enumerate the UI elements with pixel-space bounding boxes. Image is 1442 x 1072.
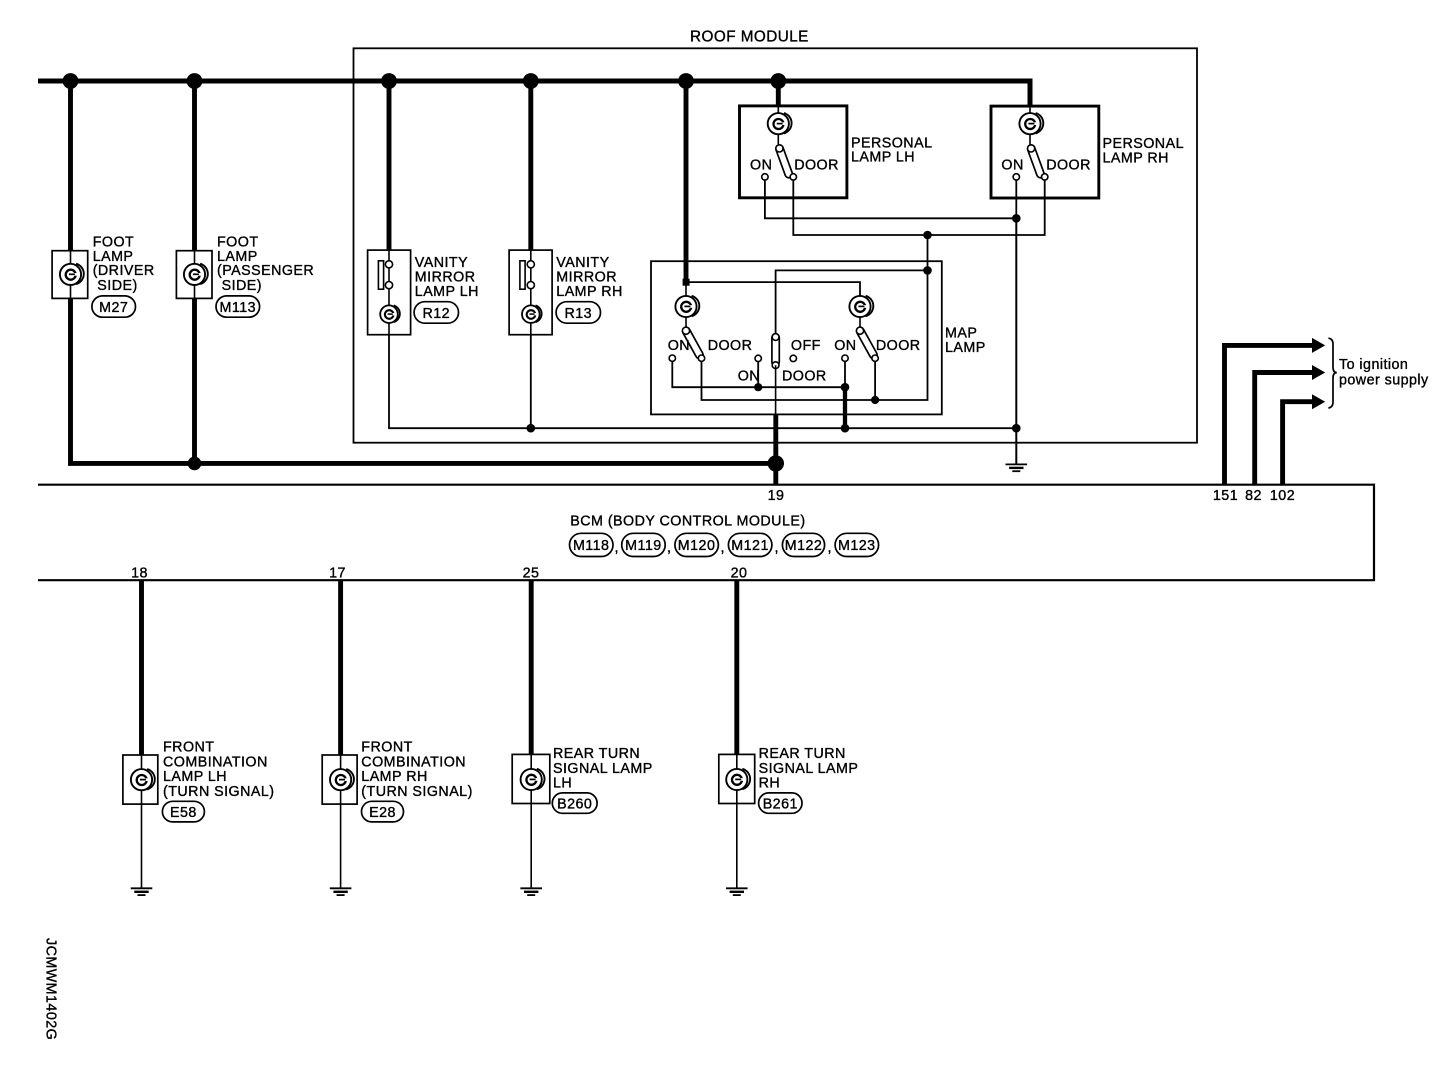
ground: front combination lamp LH [131, 888, 153, 895]
svg-text:ON: ON [1001, 157, 1023, 173]
wire: map lamp left bulb column [685, 282, 687, 331]
node: right ON corner [841, 383, 850, 392]
svg-text:LAMP LH: LAMP LH [851, 150, 915, 166]
connector E58 [162, 801, 204, 822]
brace for ignition power arrows [1328, 338, 1336, 408]
svg-text:FRONT: FRONT [361, 740, 413, 756]
BCM (BODY CONTROL MODULE) box (open on left) [38, 485, 1374, 581]
wire: vanity LH return to lamp return line [389, 335, 1016, 429]
label: ON (personal RH) [1001, 157, 1023, 173]
svg-text:151: 151 [1213, 488, 1238, 504]
svg-text:B260: B260 [557, 796, 592, 812]
map lamp right DOOR terminal [872, 355, 878, 361]
svg-text:17: 17 [329, 566, 346, 582]
label: OFF (map center) [791, 338, 821, 354]
svg-text:SIDE): SIDE) [222, 278, 262, 294]
label: ON (personal LH) [750, 157, 772, 173]
wire: map lamp feed to both bulbs [686, 282, 860, 296]
front combination lamp LH box [123, 755, 158, 804]
foot lamp passenger side: through-wire [194, 251, 196, 299]
wire: drop to foot lamp driver side [68, 83, 73, 251]
vanity RH bulb [522, 305, 542, 323]
label: DOOR (map left) [708, 338, 753, 354]
wire: BCM pin 18 to front combination lamp LH [139, 580, 144, 755]
wire: DOOR signal drop into map lamp [927, 235, 929, 270]
personal lamp RH bulb [1019, 113, 1043, 134]
svg-text:SIGNAL LAMP: SIGNAL LAMP [553, 761, 653, 777]
foot lamp driver side box [52, 251, 88, 299]
svg-text:E58: E58 [170, 805, 197, 821]
wire: foot lamp passenger side down to ground bus [192, 298, 197, 463]
vanity LH switch slider bar [378, 261, 383, 289]
comma separator 2 [667, 540, 671, 556]
wire: center switch common down (thin inside box) [775, 365, 777, 414]
svg-text:DOOR: DOOR [1046, 157, 1091, 173]
ground: front combination lamp RH [330, 888, 352, 895]
label: To ignition power supply [1339, 357, 1429, 389]
svg-text:,: , [615, 540, 619, 556]
node: bus junction to foot lamp passenger side [187, 73, 203, 89]
svg-text:,: , [721, 540, 725, 556]
svg-text:M118: M118 [573, 538, 610, 554]
svg-text:(PASSENGER: (PASSENGER [217, 263, 314, 279]
svg-text:,: , [828, 540, 832, 556]
svg-text:M123: M123 [838, 538, 876, 554]
node: bus junction to map lamp [678, 73, 694, 89]
node: passenger foot lamp joins ground bus [188, 457, 202, 471]
node: big junction at BCM pin 19 [768, 455, 784, 471]
label: VANITY MIRROR LAMP RH [556, 255, 622, 300]
label: BCM (BODY CONTROL MODULE) [570, 513, 805, 529]
foot lamp passenger side box [176, 251, 212, 299]
arrowhead 82 [1312, 365, 1325, 380]
wire: map lamp right bulb column [859, 296, 861, 331]
wire: drop to vanity mirror lamp LH [387, 83, 392, 250]
front combination lamp RH through-wire [340, 755, 342, 888]
node: corner dot of center switch feed [923, 266, 932, 275]
svg-text:LAMP RH: LAMP RH [556, 284, 622, 300]
node: map lamp feed junction (square) [683, 279, 690, 286]
ROOF MODULE enclosure box [354, 48, 1198, 442]
rear turn signal lamp LH through-wire [530, 755, 532, 888]
map lamp left bulb [675, 296, 699, 317]
comma separator 4 [775, 540, 779, 556]
front combination lamp LH through-wire [141, 755, 143, 888]
label: ON (map right) [834, 338, 856, 354]
map lamp center switch pivot top [772, 334, 779, 341]
personal lamp LH switch pivot [776, 145, 783, 152]
wire: personal lamps DOOR line [793, 180, 1044, 235]
vanity mirror lamp RH: through-wire [530, 250, 532, 335]
svg-text:LH: LH [553, 776, 572, 792]
svg-text:BCM (BODY CONTROL MODULE): BCM (BODY CONTROL MODULE) [570, 513, 805, 529]
connector M120 [675, 533, 719, 556]
wire: drop to map lamp feed [684, 83, 689, 281]
pin 102 label [1270, 488, 1295, 504]
svg-text:MIRROR: MIRROR [415, 270, 476, 286]
node: bus junction to vanity mirror lamp RH [523, 73, 539, 89]
lamp E58 bulb [131, 769, 155, 790]
pin 20 label [731, 566, 748, 582]
connector M121 [728, 533, 772, 556]
label: ON (map left) [668, 338, 690, 354]
wire: map DOOR bus inside box [702, 270, 928, 400]
label: REAR TURN SIGNAL LAMP RH [759, 746, 859, 791]
vanity RH switch slider bar [520, 261, 525, 289]
map lamp center ON terminal [755, 355, 761, 361]
wire: center switch common down to BCM pin 19 (thick) [773, 414, 778, 463]
label: FOOT LAMP (PASSENGER SIDE) [217, 234, 314, 294]
lamp B261 bulb [726, 769, 750, 790]
comma separator 5 [828, 540, 832, 556]
map lamp left DOOR terminal [698, 355, 704, 361]
connector M122 [782, 533, 824, 556]
wire: BCM pin 102 to ignition power [1283, 402, 1313, 485]
svg-text:LAMP LH: LAMP LH [415, 284, 479, 300]
svg-text:VANITY: VANITY [556, 255, 609, 271]
ROOF MODULE label [690, 29, 809, 46]
comma separator 1 [615, 540, 619, 556]
figure code JCMWM1402G (rotated) [43, 938, 59, 1040]
svg-text:R12: R12 [423, 306, 451, 322]
foot lamp driver side: through-wire [70, 251, 72, 299]
svg-text:To ignition: To ignition [1339, 357, 1408, 373]
map lamp center switch pivot bottom [772, 362, 779, 369]
connector B261 [759, 793, 802, 813]
svg-text:DOOR: DOOR [876, 338, 921, 354]
svg-text:ON: ON [834, 338, 856, 354]
label: FOOT LAMP (DRIVER SIDE) [93, 234, 155, 294]
svg-text:,: , [775, 540, 779, 556]
vanity mirror lamp LH: through-wire [388, 250, 390, 335]
svg-text:(TURN SIGNAL): (TURN SIGNAL) [163, 784, 275, 800]
node: ON line joins ground column [1012, 214, 1021, 223]
vanity mirror lamp LH box [368, 250, 411, 335]
personal lamp LH ON terminal [762, 174, 768, 180]
wire: map lamp center switch feed [776, 270, 928, 334]
svg-text:ON: ON [750, 157, 772, 173]
svg-text:SIGNAL LAMP: SIGNAL LAMP [759, 761, 859, 777]
svg-text:power supply: power supply [1339, 373, 1429, 389]
node: vanity RH return joins return line [527, 424, 536, 433]
label: MAP LAMP [945, 325, 986, 356]
map lamp center switch blade (OFF position) [772, 334, 779, 366]
rear turn signal lamp LH box [512, 754, 550, 803]
svg-text:LAMP: LAMP [945, 340, 986, 356]
personal lamp LH internal wire bulb to switch [777, 106, 779, 148]
personal lamp RH DOOR terminal [1042, 174, 1048, 180]
svg-text:18: 18 [131, 566, 148, 582]
wire: drop to personal lamp LH [776, 83, 781, 106]
arrowhead 151 [1312, 338, 1325, 353]
label: DOOR (map right) [876, 338, 921, 354]
wire: personal lamps ON line to ground column [765, 180, 1016, 218]
pin 82 label [1245, 488, 1262, 504]
lamp B260 bulb [521, 769, 545, 790]
svg-text:ROOF MODULE: ROOF MODULE [690, 29, 809, 46]
svg-text:25: 25 [523, 566, 540, 582]
arrowhead 102 [1312, 394, 1325, 409]
personal lamp LH box [740, 106, 847, 198]
map lamp left ON terminal [669, 355, 675, 361]
map lamp right bulb [849, 296, 873, 317]
wire: BCM pin 20 to rear turn signal lamp RH [734, 580, 739, 755]
map lamp left switch blade [681, 326, 704, 360]
rear turn signal lamp RH through-wire [736, 755, 738, 888]
personal lamp RH ON terminal [1013, 174, 1019, 180]
personal lamp RH switch pivot [1028, 145, 1035, 152]
map lamp right switch blade [855, 326, 878, 360]
map lamp right ON terminal [842, 355, 848, 361]
svg-text:B261: B261 [763, 796, 798, 812]
comma separator 3 [721, 540, 725, 556]
svg-text:,: , [667, 540, 671, 556]
wire: ground column from ON line to ground symbol [1015, 218, 1017, 464]
label: DOOR (personal RH) [1046, 157, 1091, 173]
node: map ON output joins return line [841, 424, 850, 433]
node: bus junction to foot lamp driver side [63, 73, 79, 89]
wire: drop to vanity mirror lamp RH [528, 83, 533, 250]
map lamp center DOOR terminal [790, 355, 796, 361]
svg-text:DOOR: DOOR [708, 338, 753, 354]
wire: BCM pin 82 to ignition power [1255, 373, 1313, 485]
wire: right DOOR terminal drop [874, 361, 876, 400]
lamp M113 bulb [184, 264, 208, 285]
svg-text:DOOR: DOOR [782, 369, 827, 385]
label: PERSONAL LAMP RH [1103, 136, 1184, 166]
front combination lamp RH box [322, 755, 357, 804]
connector M118 [570, 533, 614, 556]
svg-text:M119: M119 [625, 538, 662, 554]
pin 151 label [1213, 488, 1238, 504]
lamp M27 bulb [60, 264, 84, 285]
ground: rear turn signal lamp RH [726, 888, 748, 895]
label: ON (map center) [738, 369, 760, 385]
label: FRONT COMBINATION LAMP RH (TURN SIGNAL) [361, 740, 473, 800]
svg-text:ON: ON [738, 369, 760, 385]
vanity RH switch terminal pin bottom [527, 282, 534, 289]
node: DOOR line tap to map lamp [923, 231, 932, 240]
node: bus junction to personal lamp LH [770, 73, 786, 89]
svg-text:(DRIVER: (DRIVER [93, 263, 155, 279]
svg-text:OFF: OFF [791, 338, 821, 354]
svg-text:LAMP RH: LAMP RH [1103, 150, 1169, 166]
rear turn signal lamp RH box [719, 754, 755, 803]
svg-text:M121: M121 [731, 538, 769, 554]
map lamp box [651, 261, 942, 414]
node: bus junction to vanity mirror lamp LH [381, 73, 397, 89]
svg-text:M27: M27 [99, 300, 128, 316]
svg-text:102: 102 [1270, 488, 1295, 504]
svg-text:REAR TURN: REAR TURN [553, 746, 640, 762]
svg-text:RH: RH [759, 776, 781, 792]
connector B260 [552, 793, 597, 813]
ground: roof module ground [1006, 464, 1028, 471]
connector M27 [92, 296, 136, 317]
personal lamp RH box [991, 106, 1099, 198]
connector R13 [556, 302, 600, 324]
svg-text:VANITY: VANITY [415, 255, 468, 271]
lamp E28 bulb [330, 769, 354, 790]
label: DOOR (map center) [782, 369, 827, 385]
wire: BCM pin 25 to rear turn signal lamp LH [529, 580, 534, 755]
svg-text:E28: E28 [369, 805, 396, 821]
vanity LH switch terminal pin bottom [385, 282, 392, 289]
map lamp left switch pivot [682, 327, 689, 334]
personal lamp RH switch blade [1027, 144, 1046, 179]
personal lamp RH internal wire bulb to switch [1029, 106, 1031, 148]
svg-text:19: 19 [768, 488, 785, 504]
ground: rear turn signal lamp LH [520, 888, 542, 895]
label: PERSONAL LAMP LH [851, 135, 932, 165]
svg-text:DOOR: DOOR [794, 157, 839, 173]
personal lamp LH switch blade [775, 144, 794, 179]
svg-text:JCMWM1402G: JCMWM1402G [43, 938, 59, 1040]
wire: BCM pin 17 to front combination lamp RH [338, 580, 343, 755]
wire: junction into BCM pin 19 [773, 463, 778, 484]
label: FRONT COMBINATION LAMP LH (TURN SIGNAL) [163, 740, 275, 800]
vanity LH bulb [380, 305, 400, 323]
pin 25 label [523, 566, 540, 582]
svg-text:LAMP LH: LAMP LH [163, 769, 227, 785]
node: return line joins ground column [1012, 424, 1021, 433]
svg-text:REAR TURN: REAR TURN [759, 746, 846, 762]
vanity mirror lamp RH box [509, 250, 552, 335]
wire: center ON terminal drop [757, 362, 759, 388]
wire: map lamp ON output down to return line [843, 387, 847, 428]
connector M123 [835, 533, 879, 556]
personal lamp LH DOOR terminal [790, 174, 796, 180]
personal lamp LH bulb [768, 113, 792, 134]
connector M119 [622, 533, 666, 556]
svg-text:ON: ON [668, 338, 690, 354]
svg-text:COMBINATION: COMBINATION [163, 754, 268, 770]
vanity LH switch terminal pin top [385, 261, 392, 268]
svg-text:M120: M120 [678, 538, 716, 554]
node: center ON joins ON bus [754, 383, 762, 391]
label: DOOR (personal LH) [794, 157, 839, 173]
connector R12 [414, 302, 458, 324]
connector M113 [216, 296, 260, 317]
vanity RH switch terminal pin top [527, 261, 534, 268]
map lamp right switch pivot [856, 327, 863, 334]
pin 19 label [768, 488, 785, 504]
svg-text:SIDE): SIDE) [97, 278, 137, 294]
svg-text:LAMP RH: LAMP RH [361, 769, 427, 785]
svg-text:FRONT: FRONT [163, 740, 215, 756]
pin 18 label [131, 566, 148, 582]
label: REAR TURN SIGNAL LAMP LH [553, 746, 653, 791]
wire: foot lamp driver side to ground bus [71, 298, 776, 463]
connector E28 [362, 801, 404, 822]
svg-text:(TURN SIGNAL): (TURN SIGNAL) [361, 784, 473, 800]
wire: vanity RH return drop [530, 335, 532, 429]
svg-text:M113: M113 [220, 300, 257, 316]
svg-text:R13: R13 [565, 306, 593, 322]
svg-text:82: 82 [1245, 488, 1262, 504]
pin 17 label [329, 566, 346, 582]
wire: BCM pin 151 to ignition power [1225, 345, 1313, 484]
svg-text:COMBINATION: COMBINATION [361, 754, 466, 770]
svg-text:M122: M122 [785, 538, 823, 554]
wire: map ON bus inside box [672, 361, 845, 387]
svg-text:20: 20 [731, 566, 748, 582]
wire: drop to foot lamp passenger side [192, 83, 197, 251]
svg-text:MIRROR: MIRROR [556, 270, 617, 286]
node: right DOOR joins DOOR bus [871, 396, 879, 404]
label: VANITY MIRROR LAMP LH [415, 255, 479, 300]
wire: main battery supply bus (top) [38, 81, 1030, 106]
